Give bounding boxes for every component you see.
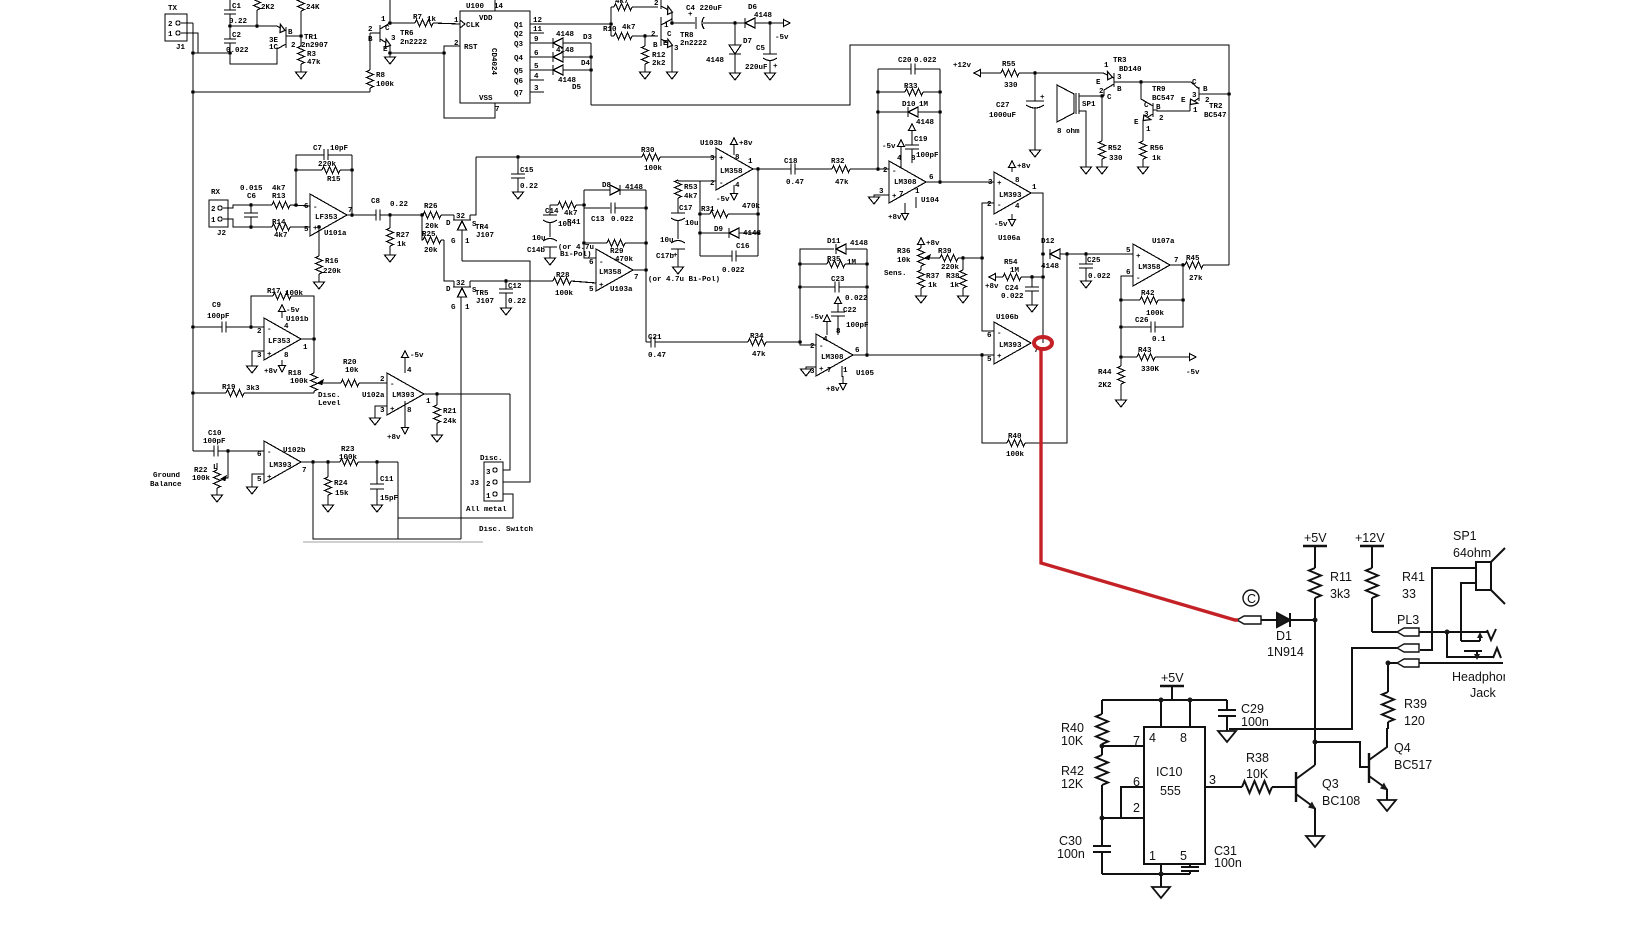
svg-text:U106a: U106a bbox=[998, 235, 1021, 243]
wire D1 node down to Q3 collector bbox=[1314, 620, 1316, 765]
ground under R27 bbox=[385, 255, 396, 262]
capacitor C25 0.022 bbox=[1085, 254, 1087, 264]
ground under C29 bbox=[1218, 731, 1236, 742]
svg-text:2n2222: 2n2222 bbox=[400, 39, 428, 47]
svg-text:2: 2 bbox=[257, 328, 262, 336]
svg-text:+8v: +8v bbox=[387, 434, 401, 442]
wire U102b out bus to TR5 gate bbox=[313, 462, 461, 539]
svg-text:3: 3 bbox=[391, 35, 396, 43]
svg-text:R8: R8 bbox=[376, 72, 386, 80]
svg-text:-: - bbox=[267, 449, 272, 457]
svg-text:Q3: Q3 bbox=[514, 41, 524, 49]
svg-text:TR2: TR2 bbox=[1209, 103, 1223, 111]
svg-text:RST: RST bbox=[464, 44, 478, 52]
svg-text:R53: R53 bbox=[684, 184, 698, 192]
wire J1 pin2 to left rail bbox=[181, 22, 193, 24]
svg-text:470k: 470k bbox=[742, 203, 761, 211]
IC10 pin4/pin8 stubs bbox=[1160, 700, 1162, 727]
svg-text:Q5: Q5 bbox=[514, 68, 524, 76]
svg-text:+8v: +8v bbox=[264, 368, 278, 376]
svg-text:R39: R39 bbox=[1404, 697, 1427, 711]
svg-text:R43: R43 bbox=[1138, 347, 1152, 355]
capacitor C19 100pF bbox=[909, 124, 916, 131]
resistor R42 100k bbox=[1121, 299, 1140, 301]
svg-text:3: 3 bbox=[380, 407, 385, 415]
svg-text:8: 8 bbox=[1015, 177, 1020, 185]
svg-text:2: 2 bbox=[291, 42, 296, 50]
svg-text:+: + bbox=[997, 353, 1002, 361]
capacitor C17b 10u bbox=[671, 241, 685, 244]
svg-text:Disc. Switch: Disc. Switch bbox=[479, 526, 534, 534]
svg-text:B: B bbox=[368, 36, 373, 44]
svg-text:R44: R44 bbox=[1098, 369, 1112, 377]
headphone jack switch arm 2 bbox=[1464, 650, 1482, 652]
wire R53 top to U103b pin2 bbox=[678, 180, 700, 182]
svg-text:220k: 220k bbox=[323, 268, 342, 276]
svg-text:0.022: 0.022 bbox=[611, 216, 634, 224]
svg-text:BD140: BD140 bbox=[1119, 66, 1142, 74]
svg-text:8: 8 bbox=[284, 352, 289, 360]
ground under R37 bbox=[916, 296, 927, 303]
svg-text:R38: R38 bbox=[946, 273, 960, 281]
wire U104 output to U106a bbox=[926, 181, 994, 183]
svg-text:+8v: +8v bbox=[985, 283, 999, 291]
svg-text:R39: R39 bbox=[938, 248, 952, 256]
svg-text:J3: J3 bbox=[470, 480, 480, 488]
svg-text:LM308: LM308 bbox=[821, 354, 844, 362]
ground under TR8 emitter bbox=[667, 72, 678, 79]
svg-text:LM393: LM393 bbox=[999, 192, 1022, 200]
resistor R24 15k bbox=[327, 462, 329, 477]
svg-text:0.022: 0.022 bbox=[1088, 273, 1111, 281]
wire R25 to TR5 drain bbox=[444, 240, 454, 281]
svg-text:VDD: VDD bbox=[479, 15, 493, 23]
svg-text:TR5: TR5 bbox=[475, 290, 489, 298]
svg-text:20k: 20k bbox=[424, 247, 438, 255]
svg-text:1: 1 bbox=[1146, 126, 1151, 134]
ground under Q4 bbox=[1378, 800, 1396, 811]
resistor R41 33 bbox=[1366, 568, 1378, 598]
svg-text:24k: 24k bbox=[443, 418, 457, 426]
svg-text:10pF: 10pF bbox=[330, 145, 349, 153]
svg-text:G: G bbox=[451, 304, 456, 312]
ground under C5 bbox=[765, 73, 776, 80]
svg-text:330K: 330K bbox=[1141, 366, 1160, 374]
svg-text:+: + bbox=[1040, 94, 1045, 102]
wire chevron2 to ground at C29 bbox=[1229, 648, 1397, 729]
svg-text:6: 6 bbox=[855, 347, 860, 355]
diode D7 4148 bbox=[734, 23, 736, 45]
svg-text:+: + bbox=[819, 366, 824, 374]
svg-text:SP1: SP1 bbox=[1453, 529, 1477, 543]
wire U103b pin2 block bbox=[700, 180, 716, 182]
svg-text:SP1: SP1 bbox=[1082, 101, 1096, 109]
svg-text:R21: R21 bbox=[443, 408, 457, 416]
svg-text:U100: U100 bbox=[466, 3, 485, 11]
svg-text:LM358: LM358 bbox=[1138, 264, 1161, 272]
wire y26 emitter net bbox=[230, 25, 277, 27]
wire U105 output to U106b bbox=[853, 354, 994, 356]
svg-text:1N914: 1N914 bbox=[1267, 645, 1304, 659]
power -5v at U104 bbox=[898, 140, 905, 147]
connector PL3 chevron 1 bbox=[1397, 628, 1419, 636]
svg-text:C1: C1 bbox=[232, 3, 242, 11]
resistor R33 1M bbox=[878, 91, 905, 93]
U104 block left rail bbox=[877, 69, 879, 169]
svg-text:BC517: BC517 bbox=[1394, 758, 1432, 772]
svg-text:-: - bbox=[719, 180, 724, 188]
svg-text:3: 3 bbox=[257, 352, 262, 360]
capacitor C12 0.22 bbox=[505, 281, 507, 289]
svg-text:TR4: TR4 bbox=[475, 224, 489, 232]
svg-text:0.22: 0.22 bbox=[390, 201, 409, 209]
resistor R9 4k7 (top cut) bbox=[614, 4, 632, 11]
svg-text:C18: C18 bbox=[784, 158, 798, 166]
power -5v at U103b bbox=[733, 185, 735, 196]
resistor R31 470k bbox=[700, 213, 710, 215]
wire R10 to TR8 base, R12 node bbox=[643, 34, 647, 38]
power +8v at U104 bbox=[904, 203, 906, 216]
svg-text:Disc.: Disc. bbox=[318, 392, 341, 400]
wire U103a output down to C21 bbox=[633, 270, 646, 342]
svg-text:100pF: 100pF bbox=[846, 322, 869, 330]
svg-text:2: 2 bbox=[1159, 115, 1164, 123]
svg-text:220uF: 220uF bbox=[745, 64, 768, 72]
svg-text:TR1: TR1 bbox=[304, 34, 318, 42]
svg-text:BC547: BC547 bbox=[1152, 95, 1175, 103]
resistor R39 220k bbox=[940, 255, 958, 262]
resistor R34 47k bbox=[748, 339, 766, 346]
svg-text:32: 32 bbox=[456, 213, 466, 221]
svg-text:5: 5 bbox=[257, 476, 262, 484]
svg-text:10u: 10u bbox=[532, 235, 546, 243]
svg-text:Q3: Q3 bbox=[1322, 777, 1339, 791]
connector J2 RX bbox=[209, 200, 228, 227]
wire U101b output bbox=[301, 338, 314, 340]
power +8v at U106a bbox=[1009, 161, 1016, 168]
svg-text:100k: 100k bbox=[376, 81, 395, 89]
svg-text:C5: C5 bbox=[756, 45, 766, 53]
resistor R21 24k bbox=[436, 394, 438, 405]
svg-text:C: C bbox=[667, 31, 672, 39]
IC U100 CD4024 bbox=[460, 11, 530, 103]
transistor TR9 BC547 bbox=[1152, 103, 1154, 117]
resistor R16 220k bbox=[317, 225, 321, 229]
svg-text:4148: 4148 bbox=[556, 47, 575, 55]
connector PL3 chevron 3 bbox=[1397, 659, 1419, 667]
svg-text:D1: D1 bbox=[1276, 629, 1292, 643]
svg-text:4k7: 4k7 bbox=[564, 210, 578, 218]
svg-text:R41: R41 bbox=[567, 219, 581, 227]
svg-text:4k7: 4k7 bbox=[272, 185, 286, 193]
resistor R30 100k bbox=[642, 154, 660, 161]
svg-text:C17: C17 bbox=[679, 205, 693, 213]
svg-text:6: 6 bbox=[929, 174, 934, 182]
wire osc loop bottom bbox=[230, 49, 277, 64]
svg-text:J107: J107 bbox=[476, 232, 494, 240]
svg-text:7: 7 bbox=[1133, 734, 1140, 748]
wire R9/R10 left rail bbox=[610, 7, 612, 36]
svg-text:7: 7 bbox=[348, 207, 353, 215]
svg-text:R27: R27 bbox=[396, 232, 410, 240]
wire U107a output bbox=[1170, 264, 1185, 266]
resistor R20 10k bbox=[341, 380, 359, 387]
svg-text:D3: D3 bbox=[583, 34, 593, 42]
ground under C12 bbox=[501, 308, 512, 315]
node C bbox=[1243, 590, 1259, 606]
transistor TR1 2n2907 bbox=[285, 27, 287, 48]
wire U101a output bbox=[347, 214, 376, 216]
svg-text:C17b: C17b bbox=[656, 253, 675, 261]
svg-text:10K: 10K bbox=[1246, 767, 1269, 781]
svg-text:LM393: LM393 bbox=[999, 342, 1022, 350]
svg-text:R20: R20 bbox=[343, 359, 357, 367]
connector J1 bbox=[165, 14, 187, 41]
svg-text:C12: C12 bbox=[508, 283, 522, 291]
svg-text:+12v: +12v bbox=[953, 62, 972, 70]
svg-text:-5v: -5v bbox=[410, 352, 424, 360]
svg-text:R24: R24 bbox=[334, 480, 348, 488]
svg-text:220k: 220k bbox=[318, 161, 337, 169]
resistor R41 4k7 bbox=[558, 202, 576, 209]
svg-text:+5V: +5V bbox=[1161, 671, 1184, 685]
wire R18 wiper to R20 bbox=[319, 382, 341, 384]
wire chevron3 sleeve line bbox=[1419, 662, 1503, 664]
svg-text:C21: C21 bbox=[648, 334, 662, 342]
svg-text:100pF: 100pF bbox=[203, 438, 226, 446]
svg-text:C14: C14 bbox=[545, 208, 559, 216]
op-amp U101b LF353 bbox=[264, 318, 301, 360]
svg-text:1: 1 bbox=[915, 188, 920, 196]
op-amp U106b LM393 bbox=[994, 322, 1031, 364]
svg-text:C: C bbox=[1247, 592, 1256, 606]
svg-text:E: E bbox=[1181, 97, 1186, 105]
svg-text:0.47: 0.47 bbox=[648, 352, 666, 360]
svg-text:B: B bbox=[653, 42, 658, 50]
svg-text:100k: 100k bbox=[644, 165, 663, 173]
resistor R11 3k3 bbox=[1309, 568, 1321, 598]
svg-text:(or 4.7u Bi-Pol): (or 4.7u Bi-Pol) bbox=[648, 276, 720, 284]
svg-text:+8v: +8v bbox=[1017, 163, 1031, 171]
svg-text:8: 8 bbox=[735, 154, 740, 162]
svg-text:D: D bbox=[446, 286, 451, 294]
svg-text:+5V: +5V bbox=[1304, 531, 1327, 545]
U104 block right rail bbox=[939, 69, 941, 182]
capacitor C26 0.1 bbox=[1121, 326, 1151, 328]
svg-text:Q1: Q1 bbox=[514, 22, 524, 30]
svg-text:100k: 100k bbox=[192, 475, 211, 483]
svg-text:R32: R32 bbox=[831, 158, 845, 166]
svg-text:U103a: U103a bbox=[610, 286, 633, 294]
svg-text:TR8: TR8 bbox=[680, 32, 694, 40]
svg-text:4148: 4148 bbox=[916, 119, 935, 127]
capacitor C1 bbox=[229, 0, 231, 10]
headphone jack switch arm 1 bbox=[1461, 640, 1480, 642]
svg-text:CD4024: CD4024 bbox=[489, 48, 497, 76]
svg-text:6: 6 bbox=[257, 451, 262, 459]
svg-text:C25: C25 bbox=[1087, 257, 1101, 265]
svg-text:100k: 100k bbox=[290, 378, 309, 386]
ground under C11 bbox=[372, 505, 383, 512]
svg-text:-5v: -5v bbox=[1186, 369, 1200, 377]
power +12V rail bbox=[1360, 545, 1384, 547]
svg-text:7: 7 bbox=[302, 467, 307, 475]
svg-text:C16: C16 bbox=[736, 243, 750, 251]
svg-text:12K: 12K bbox=[1061, 777, 1084, 791]
svg-text:1M: 1M bbox=[847, 259, 857, 267]
diode D9 4148 bbox=[700, 232, 729, 234]
op-amp U105 LM308 bbox=[816, 334, 853, 376]
wire pin6 to pin2 jog bbox=[1121, 787, 1144, 818]
svg-text:3: 3 bbox=[1192, 92, 1197, 100]
capacitor C18 0.47 bbox=[791, 164, 795, 175]
svg-text:-: - bbox=[267, 326, 272, 334]
svg-text:8: 8 bbox=[911, 155, 916, 163]
resistor R17 100k bbox=[251, 296, 273, 327]
wire chevron1 to jack tip bbox=[1419, 631, 1487, 633]
svg-text:R40: R40 bbox=[1008, 433, 1022, 441]
svg-text:100k: 100k bbox=[555, 290, 574, 298]
transistor TR2 BC547 bbox=[1198, 87, 1200, 101]
ground under R12 bbox=[640, 72, 651, 79]
svg-text:6: 6 bbox=[1133, 775, 1140, 789]
svg-text:Sens.: Sens. bbox=[884, 270, 907, 278]
svg-text:R7: R7 bbox=[413, 14, 422, 22]
svg-text:J107: J107 bbox=[476, 298, 494, 306]
resistor R40 100k bbox=[982, 355, 1007, 443]
svg-text:R12: R12 bbox=[652, 52, 666, 60]
U103b feedback block rails bbox=[699, 181, 701, 256]
capacitor C14b 10u bbox=[543, 239, 557, 242]
wire x850 riser bbox=[849, 45, 851, 105]
svg-text:-: - bbox=[1136, 275, 1141, 283]
svg-text:C24: C24 bbox=[1005, 285, 1019, 293]
ground under R52 bbox=[1097, 167, 1108, 174]
svg-text:3k3: 3k3 bbox=[1330, 587, 1350, 601]
capacitor C13 0.022 bbox=[584, 207, 610, 209]
resistor 24K (top cut) bbox=[298, 0, 305, 11]
svg-text:D9: D9 bbox=[714, 226, 724, 234]
svg-text:1: 1 bbox=[303, 344, 308, 352]
resistor R53 4k7 bbox=[677, 180, 679, 181]
svg-text:R29: R29 bbox=[610, 248, 624, 256]
wire J1 pin1 jog bbox=[181, 33, 198, 53]
svg-text:C13: C13 bbox=[591, 216, 605, 224]
transistor TR4 J107 bbox=[453, 215, 455, 220]
svg-text:4: 4 bbox=[407, 367, 412, 375]
svg-text:1k: 1k bbox=[950, 282, 960, 290]
wire VSS pin7 to RST bbox=[444, 46, 495, 118]
svg-text:+: + bbox=[673, 252, 678, 260]
svg-text:R56: R56 bbox=[1150, 145, 1164, 153]
node rail y53 bbox=[191, 51, 195, 55]
svg-text:-: - bbox=[892, 168, 897, 176]
svg-text:2K2: 2K2 bbox=[261, 4, 275, 12]
svg-text:B: B bbox=[1117, 86, 1122, 94]
ground at U105 pin3 bbox=[806, 367, 816, 369]
svg-text:LF353: LF353 bbox=[268, 338, 291, 346]
svg-text:2: 2 bbox=[368, 26, 373, 34]
svg-text:1: 1 bbox=[1193, 107, 1198, 115]
svg-text:Q7: Q7 bbox=[514, 90, 523, 98]
svg-text:+: + bbox=[267, 351, 272, 359]
svg-text:+: + bbox=[267, 474, 272, 482]
svg-text:4148: 4148 bbox=[556, 31, 575, 39]
svg-text:R3: R3 bbox=[307, 51, 317, 59]
svg-text:R42: R42 bbox=[1141, 290, 1155, 298]
svg-text:4148: 4148 bbox=[706, 57, 725, 65]
power -5v at U106a bbox=[1011, 214, 1013, 220]
wire U102a output bbox=[424, 393, 510, 395]
svg-text:555: 555 bbox=[1160, 784, 1181, 798]
resistor R55 330 bbox=[1001, 70, 1019, 77]
svg-text:4: 4 bbox=[284, 323, 289, 331]
resistor R12 2k2 bbox=[644, 36, 646, 46]
svg-text:100n: 100n bbox=[1214, 856, 1242, 870]
svg-text:20k: 20k bbox=[425, 223, 439, 231]
transistor Q4 BC517 bbox=[1368, 753, 1370, 783]
svg-text:1000uF: 1000uF bbox=[989, 112, 1017, 120]
svg-text:C9: C9 bbox=[212, 302, 222, 310]
svg-text:+: + bbox=[997, 180, 1002, 188]
resistor R26 20k bbox=[423, 212, 441, 219]
svg-text:+8v: +8v bbox=[888, 214, 902, 222]
ground under R44 bbox=[1116, 400, 1127, 407]
svg-text:R15: R15 bbox=[327, 176, 341, 184]
svg-text:0.022: 0.022 bbox=[914, 57, 937, 65]
wire left rail mid bbox=[192, 92, 194, 451]
svg-text:0.022: 0.022 bbox=[1001, 293, 1024, 301]
diode D8 4148 bbox=[584, 189, 610, 191]
resistor R56 1k bbox=[1140, 141, 1147, 159]
svg-text:C30: C30 bbox=[1059, 834, 1082, 848]
svg-text:D6: D6 bbox=[748, 4, 758, 12]
ground at U104 pin3 bbox=[874, 195, 889, 197]
resistor R35 1M bbox=[800, 263, 827, 265]
svg-text:TR9: TR9 bbox=[1152, 86, 1166, 94]
wire 555 bottom bbox=[1102, 873, 1190, 875]
svg-text:-5v: -5v bbox=[882, 143, 896, 151]
power +8v at U103b bbox=[733, 144, 735, 155]
svg-text:C11: C11 bbox=[380, 476, 394, 484]
ground under R56 bbox=[1138, 167, 1149, 174]
svg-text:E: E bbox=[663, 40, 668, 48]
svg-text:1: 1 bbox=[748, 158, 753, 166]
svg-text:LM358: LM358 bbox=[599, 269, 622, 277]
svg-text:R31: R31 bbox=[701, 206, 715, 214]
svg-text:B: B bbox=[1203, 86, 1208, 94]
resistor R7 1k bbox=[415, 20, 433, 27]
resistor R37 1k bbox=[918, 270, 925, 288]
svg-text:J2: J2 bbox=[217, 230, 227, 238]
svg-text:VSS: VSS bbox=[479, 95, 493, 103]
ground under C24 bbox=[1027, 305, 1038, 312]
capacitor C4 220uF bbox=[695, 17, 697, 29]
svg-text:BC108: BC108 bbox=[1322, 794, 1360, 808]
svg-text:10u: 10u bbox=[685, 220, 699, 228]
wire TR8 collector to C4 bbox=[672, 22, 695, 24]
svg-text:R34: R34 bbox=[750, 333, 764, 341]
svg-text:R10: R10 bbox=[603, 26, 617, 34]
svg-text:10k: 10k bbox=[345, 367, 359, 375]
svg-text:47k: 47k bbox=[835, 179, 849, 187]
svg-text:C6: C6 bbox=[247, 193, 257, 201]
svg-text:10k: 10k bbox=[897, 257, 911, 265]
svg-text:+: + bbox=[390, 406, 395, 414]
svg-text:2: 2 bbox=[1133, 801, 1140, 815]
svg-text:5: 5 bbox=[589, 286, 594, 294]
wire D3 bus to top rail bbox=[591, 45, 1229, 265]
